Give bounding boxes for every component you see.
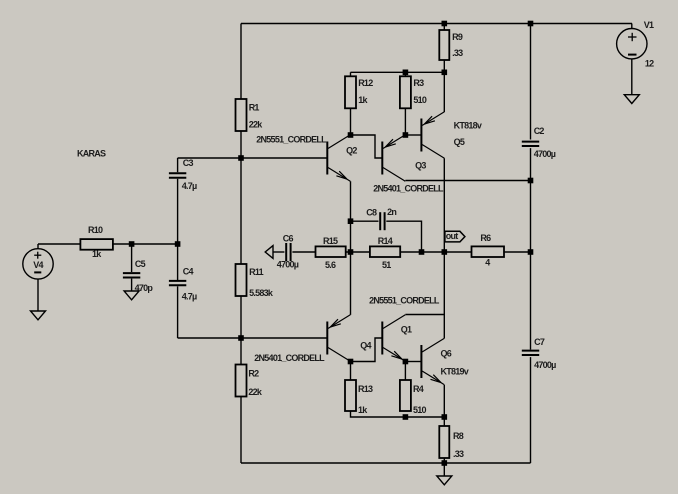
label 2N5401_CORDELL middle: [373, 184, 444, 194]
svg-text:510: 510: [413, 95, 427, 105]
node junction R11/R2 on lower base row: [238, 335, 244, 341]
wire input row from R10: [113, 243, 178, 245]
transistor Q4 2N5401_CORDELL: [327, 315, 371, 361]
svg-text:4.7µ: 4.7µ: [182, 291, 197, 301]
node junction R9 on top rail: [442, 21, 448, 27]
wire R6 to right column: [504, 251, 531, 253]
node junction R14/C8: [419, 249, 425, 255]
node junction C8 left: [348, 218, 354, 224]
svg-text:out: out: [446, 231, 458, 241]
node junction R9 bottom: [442, 70, 448, 76]
label 2N5401_CORDELL lower: [254, 353, 325, 363]
resistor R4: [400, 380, 427, 415]
node junction R8 top: [442, 414, 448, 420]
svg-text:R4: R4: [413, 384, 424, 394]
wire V1 to ground: [631, 59, 633, 95]
svg-text:KT819v: KT819v: [441, 367, 469, 377]
wire R1 to input node row: [240, 131, 242, 158]
svg-text:4700µ: 4700µ: [534, 360, 556, 370]
svg-text:R13: R13: [358, 384, 373, 394]
svg-text:22k: 22k: [248, 387, 263, 397]
svg-text:2N5401_CORDELL: 2N5401_CORDELL: [373, 184, 444, 194]
svg-text:2N5551_CORDELL: 2N5551_CORDELL: [369, 295, 440, 305]
wire bottom rail to ground: [443, 463, 445, 476]
resistor R2: [236, 365, 263, 398]
svg-text:R8: R8: [453, 431, 464, 441]
resistor R1: [236, 99, 264, 131]
wire output column: [443, 158, 445, 338]
resistor R8: [439, 417, 464, 463]
svg-text:R14: R14: [378, 236, 393, 246]
node junction C2 on top rail: [528, 21, 534, 27]
wire V4 to R10: [38, 243, 80, 245]
wire Q1 collector to output column: [405, 314, 444, 316]
svg-text:4700µ: 4700µ: [277, 260, 299, 270]
wire top supply rail: [241, 23, 632, 25]
svg-text:5.583k: 5.583k: [249, 288, 274, 298]
node junction C3/C4 tap: [175, 241, 181, 247]
wire Q5 base: [405, 134, 420, 136]
svg-text:R15: R15: [323, 236, 338, 246]
wire C7 to bottom rail: [530, 357, 532, 463]
wire C5 to ground: [131, 279, 133, 291]
wire Q2 base row: [178, 157, 327, 159]
wire C2 top feed: [530, 24, 532, 140]
svg-text:4.7µ: 4.7µ: [182, 181, 197, 191]
wire R15 to R14: [346, 251, 370, 253]
svg-text:2N5401_CORDELL: 2N5401_CORDELL: [254, 353, 325, 363]
svg-text:V1: V1: [644, 20, 654, 30]
node junction right column R6: [528, 249, 534, 255]
svg-text:C6: C6: [283, 234, 294, 244]
input port marker: [265, 246, 273, 259]
transistor Q3 2N5401_CORDELL: [382, 135, 426, 181]
svg-text:C3: C3: [183, 158, 194, 168]
label KARAS: [77, 149, 106, 159]
svg-text:4: 4: [485, 257, 490, 267]
wire V1 feed stub: [631, 24, 633, 30]
wire left rail to R1: [240, 24, 242, 100]
svg-text:Q6: Q6: [441, 348, 452, 358]
svg-text:R9: R9: [452, 32, 463, 42]
node junction R1/R11 on base row: [238, 155, 244, 161]
wire R13 top stub: [350, 362, 352, 381]
node junction C5 tap: [129, 241, 135, 247]
node junction C2 bottom: [528, 178, 534, 184]
svg-text:4700µ: 4700µ: [534, 149, 556, 159]
svg-text:C7: C7: [534, 337, 545, 347]
node junction R3 top: [403, 70, 409, 76]
wire C3 to C4: [177, 179, 179, 280]
node junction Q1 emitter: [403, 359, 409, 365]
voltage source V4: [23, 244, 53, 279]
wire R12 to Q2 collector node: [350, 108, 352, 135]
capacitor C7: [522, 337, 556, 370]
wire R14 to R6: [400, 251, 471, 253]
resistor R15: [316, 236, 346, 270]
label 2N5551_CORDELL lower: [369, 295, 440, 305]
wire C5 stub: [131, 244, 133, 272]
svg-text:V4: V4: [33, 260, 43, 270]
wire bottom rail: [241, 462, 531, 464]
wire R4 top stub: [404, 362, 406, 381]
wire Q1 base route: [351, 338, 382, 362]
resistor R3: [400, 72, 427, 108]
node junction R8 bottom rail: [442, 460, 448, 466]
voltage source V1: [617, 20, 655, 69]
port flag out: [445, 231, 465, 242]
wire C6 to R15: [292, 251, 315, 253]
svg-text:.33: .33: [452, 48, 463, 58]
resistor R11: [236, 264, 274, 298]
wire C8 right to feedback node: [386, 221, 421, 252]
node junction Q2 collector: [348, 132, 354, 138]
capacitor C5: [123, 259, 153, 293]
svg-text:R2: R2: [248, 369, 259, 379]
wire R13/R4 bottom row to R8: [351, 411, 445, 417]
capacitor C8: [366, 207, 396, 230]
svg-text:R12: R12: [358, 78, 373, 88]
ground bottom center: [437, 476, 452, 485]
resistor R6: [472, 233, 505, 267]
wire C2 down right column: [530, 148, 532, 349]
node junction emitter column on R15 row: [348, 249, 354, 255]
svg-text:5.6: 5.6: [325, 260, 336, 270]
svg-text:Q4: Q4: [360, 341, 371, 351]
svg-text:510: 510: [413, 405, 427, 415]
wire driver supply row: [351, 71, 445, 73]
transistor Q6 KT819v: [421, 338, 468, 384]
node junction Q3 emitter: [403, 132, 409, 138]
wire Q3 base route: [351, 135, 382, 158]
capacitor C4: [169, 267, 197, 302]
wire base row to R11: [240, 158, 242, 264]
svg-text:C5: C5: [135, 259, 146, 269]
svg-text:C2: C2: [534, 126, 545, 136]
svg-text:R10: R10: [88, 225, 103, 235]
wire Q6 base: [405, 361, 420, 363]
svg-text:Q2: Q2: [346, 145, 357, 155]
transistor Q1 2N5551_CORDELL: [382, 315, 412, 361]
wire Q6 emitter stub: [443, 385, 445, 417]
node junction R4 bottom: [403, 414, 409, 420]
svg-text:Q5: Q5: [454, 137, 465, 147]
svg-text:51: 51: [382, 260, 391, 270]
wire Q3 collector to C2 bottom: [405, 180, 530, 182]
wire Q2 emitter column: [350, 181, 352, 315]
svg-text:.33: .33: [453, 449, 464, 459]
node junction output: [442, 249, 448, 255]
wire V4 to ground: [37, 279, 39, 311]
wire port to C6: [273, 251, 284, 253]
svg-text:12: 12: [645, 59, 654, 69]
wire Q5 emitter stub: [443, 72, 445, 112]
svg-text:2N5551_CORDELL: 2N5551_CORDELL: [256, 135, 327, 145]
wire Q4 base row: [178, 337, 328, 339]
svg-text:C8: C8: [366, 208, 377, 218]
svg-text:R11: R11: [249, 267, 264, 277]
transistor Q5 KT818v: [421, 112, 481, 158]
node junction Q4 collector: [348, 359, 354, 365]
wire C4 to lower base row: [177, 286, 179, 338]
resistor R14: [370, 236, 400, 270]
svg-text:22k: 22k: [249, 120, 264, 130]
wire C8 left: [351, 220, 379, 222]
ground below C5: [124, 291, 139, 300]
resistor R13: [345, 380, 373, 415]
label 2N5551_CORDELL upper: [256, 135, 327, 145]
ground below V1: [624, 95, 639, 104]
wire C3 top stub: [177, 158, 179, 172]
svg-text:Q3: Q3: [415, 161, 426, 171]
resistor R10: [80, 225, 113, 259]
capacitor C3: [169, 158, 197, 191]
transistor Q2 2N5551_CORDELL: [327, 135, 357, 181]
resistor R9: [439, 24, 463, 73]
svg-text:KT818v: KT818v: [454, 120, 482, 130]
svg-text:R1: R1: [249, 103, 260, 113]
svg-text:2n: 2n: [387, 207, 396, 217]
svg-text:R6: R6: [480, 233, 491, 243]
capacitor C2: [522, 126, 556, 159]
svg-text:R3: R3: [413, 78, 424, 88]
capacitor C6: [277, 234, 299, 270]
svg-text:KARAS: KARAS: [77, 149, 106, 159]
resistor R12: [345, 72, 373, 108]
wire R3 to Q3 emitter node: [404, 108, 406, 135]
svg-text:C4: C4: [183, 267, 194, 277]
wire R2 to bottom rail: [240, 397, 242, 464]
svg-text:Q1: Q1: [401, 324, 412, 334]
wire R11 to lower row: [240, 296, 242, 365]
ground below V4: [31, 311, 46, 320]
